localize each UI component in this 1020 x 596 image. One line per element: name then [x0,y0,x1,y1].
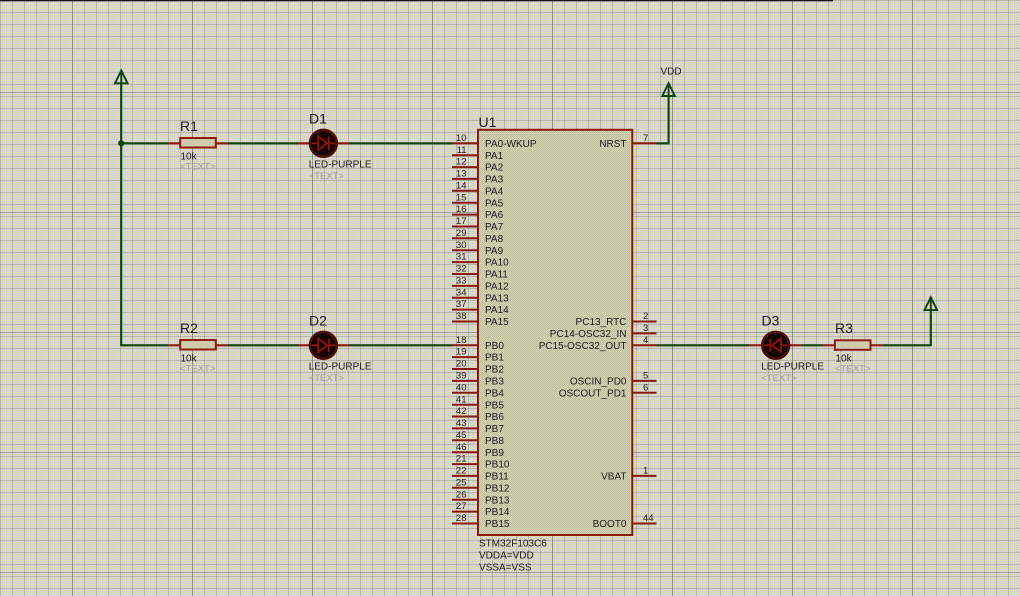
resistor R2 [168,340,228,350]
svg-text:LED-PURPLE: LED-PURPLE [761,361,824,372]
svg-text:R3: R3 [835,320,853,336]
svg-text:31: 31 [456,252,467,263]
svg-text:OSCIN_PD0: OSCIN_PD0 [570,377,627,388]
svg-text:2: 2 [643,311,648,322]
wire: R3 to right power rail [883,310,931,345]
svg-text:NRST: NRST [599,139,626,150]
pin PA13 (34) [452,287,509,304]
svg-text:PB11: PB11 [485,472,509,483]
pin PB9 (46) [452,442,504,459]
svg-text:27: 27 [456,501,467,512]
pin PB10 (21) [452,454,510,471]
svg-text:PB7: PB7 [485,424,504,435]
svg-text:PB13: PB13 [485,495,510,506]
pin PB4 (40) [452,382,504,399]
IC U1 STM32F103C6 body [478,130,632,535]
power symbol (top-right) [925,297,938,310]
pin PB14 (27) [452,501,510,518]
pin PA8 (29) [452,228,504,245]
svg-text:D3: D3 [762,312,780,328]
svg-text:5: 5 [643,371,648,382]
svg-text:R2: R2 [180,320,198,336]
svg-text:PA12: PA12 [485,282,509,293]
wire: rail to R2 [121,344,168,346]
svg-text:U1: U1 [479,114,497,130]
pin PB8 (45) [452,430,504,447]
svg-text:34: 34 [456,287,467,298]
pin PA1 (11) [452,145,504,162]
svg-text:12: 12 [456,157,467,168]
pin OSCOUT_PD1 (6) [559,382,657,399]
svg-text:30: 30 [456,240,467,251]
wire: D2 to U1 PB0 [349,344,453,346]
wire: U1 PC15 to D3 [657,344,750,346]
pin PC13_RTC (2) [576,311,657,328]
pin PA9 (30) [452,240,504,257]
svg-text:7: 7 [643,133,648,144]
pin PA12 (33) [452,276,509,293]
svg-text:PB0: PB0 [485,341,504,352]
svg-text:3: 3 [643,323,648,334]
svg-text:22: 22 [456,466,467,477]
pin PB6 (42) [452,406,504,423]
wire: D1 to U1 PA0 [349,142,453,144]
pin PA10 (31) [452,252,509,269]
pin PA14 (37) [452,299,509,316]
pin PA5 (15) [452,192,504,209]
svg-text:PB5: PB5 [485,400,504,411]
pin PA4 (14) [452,180,504,197]
svg-text:LED-PURPLE: LED-PURPLE [309,361,372,372]
pin PA2 (12) [452,157,504,174]
wire: R1 to D1 [228,142,298,144]
wire: R2 to D2 [228,344,298,346]
svg-text:PA10: PA10 [485,258,509,269]
pin PB15 (28) [452,513,510,530]
LED D2 [298,332,349,359]
svg-text:PA1: PA1 [485,151,504,162]
svg-text:PA7: PA7 [485,222,504,233]
pin PB12 (25) [452,477,510,494]
resistor R3 [822,340,882,350]
svg-text:39: 39 [456,371,467,382]
svg-text:PA8: PA8 [485,234,504,245]
svg-text:37: 37 [456,299,467,310]
svg-text:PB10: PB10 [485,460,510,471]
pin PA11 (32) [452,264,508,281]
resistor R1 [168,138,228,148]
pin PB0 (18) [452,335,504,352]
svg-text:44: 44 [643,513,654,524]
pin PB2 (20) [452,359,504,376]
svg-text:STM32F103C6: STM32F103C6 [479,539,547,550]
svg-text:R1: R1 [180,118,198,134]
svg-text:PC13_RTC: PC13_RTC [576,317,627,328]
svg-text:PA0-WKUP: PA0-WKUP [485,139,537,150]
svg-text:14: 14 [456,180,467,191]
svg-text:<TEXT>: <TEXT> [180,162,216,173]
pin VBAT (1) [601,466,656,483]
svg-text:VDDA=VDD: VDDA=VDD [479,551,534,562]
svg-text:PB6: PB6 [485,412,504,423]
pin PB11 (22) [452,466,509,483]
svg-text:PB12: PB12 [485,483,510,494]
svg-text:33: 33 [456,276,467,287]
svg-text:PA5: PA5 [485,198,504,209]
svg-text:PA6: PA6 [485,210,504,221]
svg-text:26: 26 [456,489,467,500]
svg-text:D1: D1 [309,110,327,126]
svg-text:BOOT0: BOOT0 [593,519,627,530]
svg-text:41: 41 [456,394,467,405]
pin PC15-OSC32_OUT (4) [539,335,657,352]
power symbol (top-left) [115,71,128,84]
pin PB1 (19) [452,347,504,364]
svg-text:<TEXT>: <TEXT> [309,171,345,182]
svg-text:PB8: PB8 [485,436,504,447]
pin PA7 (17) [452,216,504,233]
sheet border line (top) [0,0,833,1]
svg-text:PA3: PA3 [485,175,504,186]
svg-text:42: 42 [456,406,467,417]
pin OSCIN_PD0 (5) [570,371,657,388]
pin PA0-WKUP (10) [452,133,537,150]
svg-text:25: 25 [456,477,467,488]
svg-text:4: 4 [643,335,648,346]
svg-text:<TEXT>: <TEXT> [835,364,871,375]
svg-text:PA11: PA11 [485,270,508,281]
svg-text:43: 43 [456,418,467,429]
svg-text:32: 32 [456,264,467,275]
svg-text:LED-PURPLE: LED-PURPLE [309,159,372,170]
svg-text:46: 46 [456,442,467,453]
pin PA6 (16) [452,204,504,221]
svg-text:1: 1 [643,466,648,477]
svg-text:PB1: PB1 [485,353,504,364]
svg-text:15: 15 [456,192,467,203]
svg-text:29: 29 [456,228,467,239]
LED D1 [298,130,349,157]
pin PA3 (13) [452,169,504,186]
svg-text:PA2: PA2 [485,163,504,174]
svg-text:PC14-OSC32_IN: PC14-OSC32_IN [550,329,627,340]
svg-text:11: 11 [457,145,467,156]
pin PC14-OSC32_IN (3) [550,323,657,340]
svg-text:40: 40 [456,382,467,393]
power symbol VDD [662,83,675,96]
wire: NRST to VDD arrow [657,96,669,144]
svg-text:VSSA=VSS: VSSA=VSS [479,562,532,573]
svg-text:PA13: PA13 [485,293,509,304]
svg-text:PB2: PB2 [485,365,504,376]
svg-text:PA15: PA15 [485,317,509,328]
pin PB3 (39) [452,371,504,388]
svg-text:OSCOUT_PD1: OSCOUT_PD1 [559,388,627,399]
svg-text:PA14: PA14 [485,305,509,316]
svg-text:PA9: PA9 [485,246,504,257]
svg-text:20: 20 [456,359,467,370]
pin PB7 (43) [452,418,504,435]
svg-text:19: 19 [456,347,467,358]
svg-text:<TEXT>: <TEXT> [180,364,216,375]
svg-text:VBAT: VBAT [601,472,626,483]
svg-text:28: 28 [456,513,467,524]
wire: D3 to R3 [802,344,823,346]
svg-text:VDD: VDD [661,67,682,78]
wire: left vertical rail x=121 [120,83,122,346]
svg-text:6: 6 [643,382,648,393]
svg-text:13: 13 [456,169,467,180]
pin PA15 (38) [452,311,509,328]
svg-text:PB4: PB4 [485,388,504,399]
pin PB13 (26) [452,489,510,506]
svg-text:D2: D2 [309,312,327,328]
svg-text:PB15: PB15 [485,519,510,530]
svg-text:PC15-OSC32_OUT: PC15-OSC32_OUT [539,341,627,352]
svg-text:PA4: PA4 [485,186,504,197]
pin BOOT0 (44) [593,513,657,530]
pin NRST (7) [599,133,656,150]
svg-text:38: 38 [456,311,467,322]
LED D3 (mirrored) [749,332,802,359]
wire: rail to R1 [121,142,168,144]
svg-text:<TEXT>: <TEXT> [761,373,797,384]
svg-text:10: 10 [456,133,467,144]
svg-text:PB3: PB3 [485,377,504,388]
svg-text:<TEXT>: <TEXT> [309,373,345,384]
svg-text:45: 45 [456,430,467,441]
svg-text:18: 18 [456,335,467,346]
svg-text:PB14: PB14 [485,507,510,518]
svg-text:17: 17 [456,216,467,227]
svg-text:21: 21 [456,454,467,465]
svg-text:16: 16 [456,204,467,215]
svg-text:PB9: PB9 [485,448,504,459]
pin PB5 (41) [452,394,504,411]
junction: rail to R1 branch [118,140,124,146]
